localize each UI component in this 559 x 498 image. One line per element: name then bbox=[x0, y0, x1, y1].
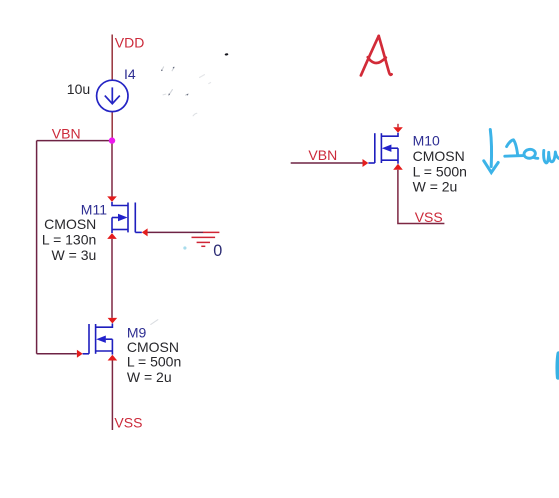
transistor M9 (NMOS) bbox=[77, 318, 117, 361]
annotation cyan dot near ground bbox=[183, 246, 186, 249]
M10 bulk lead bbox=[391, 147, 398, 149]
I4 arrow shaft bbox=[111, 87, 113, 103]
svg-text:I4: I4 bbox=[124, 66, 136, 82]
M9 gate pin lead bbox=[83, 353, 89, 355]
annotation letter A (red handwriting) bbox=[361, 36, 392, 76]
transistor M11 (mirrored NMOS) bbox=[107, 196, 147, 239]
svg-text:VBN: VBN bbox=[52, 125, 81, 141]
wire VBN right to M10 gate bbox=[291, 162, 363, 164]
ground 0 bbox=[192, 232, 220, 246]
M10 drain lead bbox=[381, 133, 398, 137]
current source I4 bbox=[97, 80, 128, 111]
wire M11 source to M9 drain bbox=[111, 239, 113, 318]
M10 source pin arrow bbox=[393, 164, 403, 170]
svg-text:M10: M10 bbox=[413, 133, 440, 149]
M10 source lead bbox=[381, 159, 398, 161]
M11 bulk lead bbox=[112, 217, 118, 219]
wire node VBN to M11 drain bbox=[111, 144, 113, 197]
svg-text:W = 2u: W = 2u bbox=[413, 179, 458, 195]
M10 gate pin arrow bbox=[363, 159, 369, 167]
svg-text:VDD: VDD bbox=[115, 34, 145, 50]
wire M10 source to VSS right bbox=[398, 170, 445, 224]
M11 drain lead bbox=[112, 202, 128, 206]
svg-text:W = 2u: W = 2u bbox=[127, 369, 172, 385]
M9 drain pin arrow bbox=[108, 318, 118, 324]
svg-text:L = 130n: L = 130n bbox=[42, 232, 96, 248]
svg-text:CMOSN: CMOSN bbox=[44, 216, 96, 232]
svg-text:CMOSN: CMOSN bbox=[413, 148, 465, 164]
M9 bulk-source tie bbox=[111, 339, 113, 354]
M9 channel bar bbox=[95, 324, 97, 354]
M9 gate bar bbox=[88, 324, 90, 354]
M9 bulk lead bbox=[106, 338, 113, 340]
mark dark blot top bbox=[225, 53, 229, 56]
wire VBN horizontal bbox=[37, 140, 112, 142]
M9 drain lead bbox=[96, 324, 113, 328]
svg-text:CMOSN: CMOSN bbox=[127, 339, 179, 355]
wire VBN left vertical bbox=[36, 141, 38, 354]
wire M9 source to VSS bbox=[111, 361, 113, 431]
svg-text:VSS: VSS bbox=[415, 209, 443, 225]
wire VDD to current source I4 bbox=[111, 35, 113, 81]
M11 drain pin arrow bbox=[107, 196, 117, 202]
faint dark specks bbox=[161, 67, 188, 96]
M11 gate bar bbox=[134, 203, 136, 233]
M9 bulk arrow bbox=[96, 336, 106, 343]
M9 gate pin arrow bbox=[77, 350, 83, 358]
M10 bulk-source tie bbox=[397, 148, 399, 164]
svg-text:L = 500n: L = 500n bbox=[127, 354, 181, 370]
M10 gate bar bbox=[374, 133, 376, 163]
M10 drain pin arrow bbox=[393, 127, 403, 133]
M10 channel bar bbox=[380, 133, 382, 163]
svg-text:M11: M11 bbox=[81, 201, 107, 217]
svg-text:W = 3u: W = 3u bbox=[52, 247, 97, 263]
wire current source I4 to node VBN bbox=[111, 112, 113, 138]
annotation cyan 10u text bbox=[505, 140, 559, 163]
M11 channel bar bbox=[127, 203, 129, 233]
I4 circle bbox=[97, 80, 128, 111]
node VBN junction dot bbox=[109, 137, 115, 143]
svg-text:0: 0 bbox=[213, 242, 222, 260]
svg-text:VSS: VSS bbox=[114, 414, 142, 430]
M9 source pin arrow bbox=[108, 355, 118, 361]
faint pencil marks bbox=[151, 67, 211, 325]
M10 bulk arrow bbox=[382, 145, 392, 152]
svg-text:VBN: VBN bbox=[308, 147, 337, 163]
M10 drain stub bbox=[397, 124, 399, 128]
M11 bulk arrow bbox=[118, 214, 128, 221]
M11 gate pin arrow bbox=[142, 228, 148, 236]
annotation cyan mark right edge bbox=[558, 353, 559, 377]
M11 bulk-source tie bbox=[111, 218, 113, 234]
M11 gate pin lead bbox=[135, 231, 142, 233]
annotation cyan down arrow bbox=[484, 130, 498, 173]
wire VBN to M9 gate bbox=[37, 353, 77, 355]
svg-text:L = 500n: L = 500n bbox=[413, 164, 467, 180]
I4 arrow chevron bbox=[105, 96, 120, 104]
transistor M10 (NMOS) bbox=[363, 124, 403, 170]
wire M11 gate to ground bbox=[148, 231, 204, 233]
M11 source lead bbox=[112, 229, 128, 231]
M10 gate pin lead bbox=[368, 162, 374, 164]
svg-text:10u: 10u bbox=[67, 81, 90, 97]
M11 source pin arrow bbox=[107, 233, 117, 239]
M9 source lead bbox=[96, 350, 113, 352]
